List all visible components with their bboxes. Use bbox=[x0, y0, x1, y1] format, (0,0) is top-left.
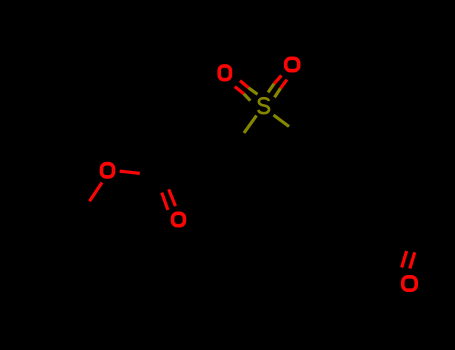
wire double bond C9=O5 (aldehyde, O-colored halves, two parallel lines) bbox=[402, 251, 415, 269]
atom O4 (sulfonyl right O) bbox=[286, 58, 299, 70]
wire double bond C2=O2 (O-colored halves, two parallel lines) bbox=[162, 189, 176, 210]
atom S1 (sulfonyl S) bbox=[258, 98, 269, 113]
wire bond O1-C2 (ester O to carbonyl C, O-colored half) bbox=[120, 171, 140, 173]
wire double bond S1=O4 (left line: olive S-half then red O-half) bbox=[268, 76, 281, 93]
wire double bond S1=O4 (right line: olive S-half then red O-half) bbox=[275, 80, 287, 98]
wire double bond S1=O3 (upper line: red O-half then olive S-half) bbox=[240, 81, 258, 95]
wire bond S1-C3 (S to vinyl CH, S-colored half) bbox=[244, 116, 257, 134]
atom O3 (sulfonyl left O) bbox=[219, 66, 230, 80]
wire bond O1-C10 (ester O to ethyl CH2, O-colored half) bbox=[90, 183, 103, 202]
atom O2 (ester carbonyl =O) bbox=[173, 213, 185, 225]
atom O5 (aldehyde =O) bbox=[403, 277, 416, 290]
wire bond S1-C4 (S to aryl C, S-colored half) bbox=[274, 115, 290, 127]
wire double bond S1=O3 (lower line: red O-half then olive S-half) bbox=[235, 87, 251, 101]
atom O1 (ester -O-) bbox=[102, 164, 114, 177]
